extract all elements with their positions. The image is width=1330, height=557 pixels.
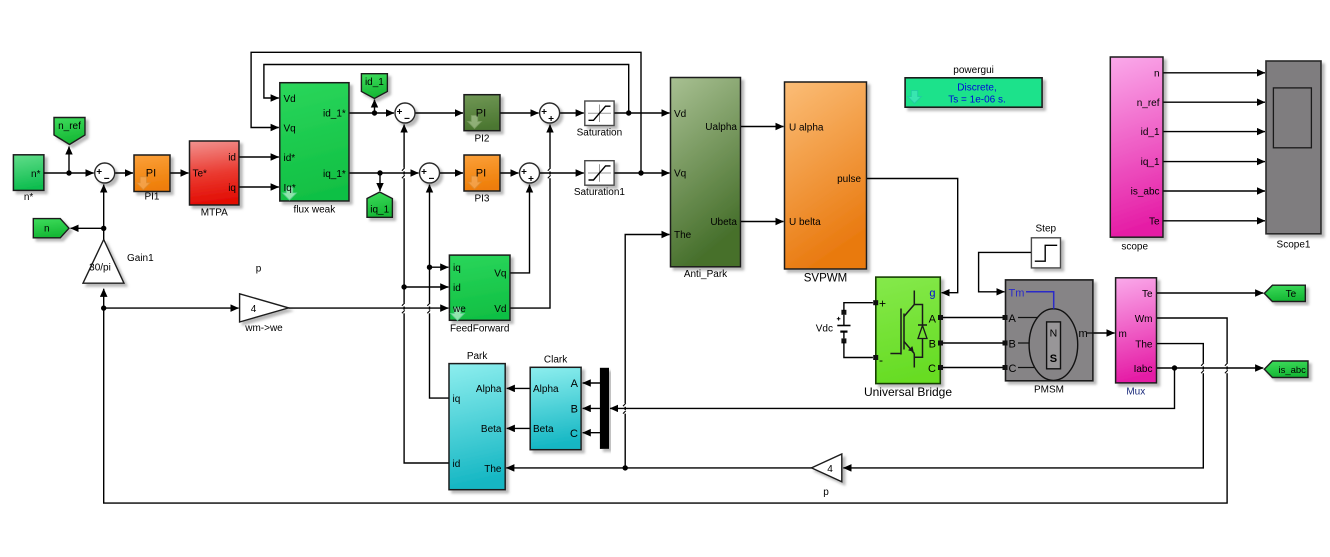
svg-text:SVPWM: SVPWM: [804, 273, 847, 285]
sum junction Sum2: [395, 103, 415, 123]
svg-text:Vq: Vq: [284, 123, 296, 134]
wire Mux Te to tag: [1157, 292, 1263, 294]
wire demux to Clark C: [583, 432, 600, 434]
svg-text:id: id: [453, 283, 461, 294]
svg-text:Discrete,: Discrete,: [957, 83, 996, 94]
svg-text:A: A: [571, 378, 579, 390]
wire PI3 to Sum5: [501, 172, 519, 174]
svg-text:S: S: [1050, 353, 1057, 365]
svg-text:Vd: Vd: [674, 109, 686, 120]
svg-text:B: B: [1009, 338, 1016, 350]
machine block PMSM: [1006, 280, 1094, 395]
wire Vdc minus to bridge: [844, 342, 873, 358]
wire gain wm-we to FeedForward we: [289, 307, 449, 309]
wire Iabc to demux: [610, 368, 1175, 408]
crossing hop Wm vertical x Iabc out wire: [1225, 363, 1229, 373]
subsystem FeedForward: [449, 255, 510, 334]
svg-text:B: B: [571, 403, 578, 415]
svg-text:powergui: powergui: [953, 65, 994, 76]
svg-text:PI1: PI1: [144, 192, 159, 203]
svg-text:Vq: Vq: [674, 169, 686, 180]
junction The branch: [623, 465, 628, 470]
svg-text:The: The: [674, 230, 692, 241]
svg-text:id: id: [453, 459, 461, 470]
wire Sum1 to PI1: [115, 172, 133, 174]
svg-text:Tm: Tm: [1009, 287, 1025, 299]
wire id branch to FeedForward: [404, 286, 448, 288]
wire PMSM m to Mux: [1094, 332, 1115, 334]
svg-text:Scope1: Scope1: [1277, 240, 1311, 251]
svg-text:30/pi: 30/pi: [89, 263, 111, 274]
wire branch to n tag: [71, 227, 104, 229]
svg-text:is_abc: is_abc: [1278, 365, 1306, 376]
svg-text:id_1: id_1: [1141, 127, 1160, 138]
svg-text:Te: Te: [1149, 216, 1160, 227]
subsystem Clark: [530, 355, 581, 450]
svg-text:PMSM: PMSM: [1034, 384, 1064, 395]
svg-text:U alpha: U alpha: [789, 122, 824, 133]
wire Mux Wm feedback: [104, 289, 1227, 503]
svg-text:we: we: [452, 304, 466, 315]
svg-text:PI2: PI2: [474, 134, 489, 145]
wire Sum5 to Saturation1: [540, 172, 584, 174]
PI block PI2: [464, 95, 500, 145]
svg-text:Park: Park: [467, 351, 489, 362]
wire PI1 to MTPA Te*: [171, 172, 189, 174]
wire Saturation1 to Anti_Park Vq: [615, 172, 670, 174]
junction Vd feedback: [626, 110, 631, 115]
svg-text:Te: Te: [1142, 289, 1153, 300]
wire flux weak id_1* to Sum2: [350, 112, 395, 114]
goto tag iq_1: [367, 192, 392, 217]
svg-text:Beta: Beta: [533, 424, 554, 435]
wire demux to Clark A: [583, 382, 600, 384]
junction id_1 branch: [372, 110, 377, 115]
wire MTPA iq to flux weak Iq*: [240, 186, 279, 188]
pad bridge minus: [873, 355, 878, 360]
junction iq to FeedForward: [427, 265, 432, 270]
wire iq branch to FeedForward: [430, 266, 449, 268]
svg-text:MTPA: MTPA: [201, 208, 228, 219]
power block Universal Bridge: [864, 277, 952, 399]
svg-text:is_abc: is_abc: [1131, 187, 1160, 198]
goto tag is_abc: [1264, 361, 1308, 378]
svg-text:U belta: U belta: [789, 217, 821, 228]
goto tag n_ref: [54, 118, 85, 145]
source block n*: [13, 155, 44, 203]
wire FeedForward Vd to Sum4: [511, 125, 551, 309]
svg-text:Ubeta: Ubeta: [710, 217, 737, 228]
sum junction Sum4: [540, 103, 560, 123]
svg-text:iq_1: iq_1: [370, 204, 389, 215]
wire scope Te to Scope1: [1164, 220, 1266, 222]
wire Mux The feedback: [843, 344, 1203, 468]
wire bridge B to PMSM B: [941, 342, 1006, 344]
svg-text:n_ref: n_ref: [1137, 98, 1160, 109]
svg-text:Mux: Mux: [1126, 386, 1145, 397]
wire scope is_abc to Scope1: [1164, 190, 1266, 192]
wire Saturation to Anti_Park Vd: [615, 112, 670, 114]
wire Sum3 to PI3: [440, 172, 463, 174]
crossing hop The vertical x Iabc out wire: [1201, 363, 1205, 373]
subsystem Park: [449, 351, 505, 490]
svg-text:Universal Bridge: Universal Bridge: [864, 385, 952, 399]
wire Clark Beta to Park: [507, 427, 530, 429]
subsystem Anti_Park: [671, 78, 741, 281]
wire MTPA id to flux weak id*: [240, 156, 279, 158]
sum junction Sum1: [95, 163, 115, 183]
wire bridge C to PMSM C: [941, 367, 1006, 369]
svg-text:PI: PI: [146, 168, 156, 180]
svg-text:4: 4: [827, 464, 833, 475]
gain p: [812, 454, 842, 498]
wire Mux Iabc to is_abc tag: [1157, 367, 1263, 369]
junction iq_1 branch: [377, 170, 382, 175]
subsystem MTPA: [190, 141, 240, 219]
goto tag id_1: [361, 74, 387, 99]
wire bridge A to PMSM A: [941, 317, 1006, 319]
junction id to FeedForward: [401, 284, 406, 289]
svg-text:A: A: [929, 313, 937, 325]
subsystem scope: [1110, 57, 1163, 253]
svg-text:Ts = 1e-06 s.: Ts = 1e-06 s.: [948, 95, 1006, 106]
wire Anti_Park Ubeta to SVPWM: [741, 221, 784, 223]
wire scope n to Scope1: [1164, 72, 1266, 74]
saturation block Saturation1: [574, 161, 626, 198]
wire Vd feedback loop: [264, 65, 629, 114]
svg-text:iq: iq: [453, 263, 461, 274]
pad bridge B: [938, 341, 1008, 346]
dc source Vdc: [816, 310, 851, 344]
wire scope id_1 to Scope1: [1164, 131, 1266, 133]
wire The to Anti_Park: [625, 235, 669, 468]
gain Gain1 30/pi: [83, 240, 154, 284]
svg-text:Alpha: Alpha: [533, 384, 559, 395]
wire n* to Sum1: [44, 172, 94, 174]
svg-text:p: p: [256, 264, 262, 275]
wire Park iq feedback: [430, 185, 449, 399]
svg-text:B: B: [929, 338, 936, 350]
svg-text:scope: scope: [1121, 242, 1148, 253]
svg-text:Te*: Te*: [193, 169, 208, 180]
crossing hop id vertical x we wire: [402, 303, 406, 313]
svg-text:Alpha: Alpha: [476, 384, 502, 395]
wire scope n_ref to Scope1: [1164, 101, 1266, 103]
svg-text:Anti_Park: Anti_Park: [684, 269, 728, 280]
subsystem flux weak: [280, 83, 349, 216]
subsystem SVPWM: [785, 82, 867, 285]
svg-text:Wm: Wm: [1135, 314, 1153, 325]
svg-text:pulse: pulse: [837, 174, 861, 185]
junction n branch: [101, 226, 106, 231]
svg-text:id: id: [228, 153, 236, 164]
wire branch to gain wm-we: [104, 307, 239, 309]
svg-text:A: A: [1009, 313, 1017, 325]
svg-text:n*: n*: [31, 169, 41, 180]
wire branch to id_1 tag: [374, 100, 376, 114]
wire branch to n_ref tag: [68, 147, 70, 174]
wire gain p to Park The: [506, 467, 811, 469]
svg-text:+: +: [879, 297, 886, 311]
wire SVPWM pulse to bridge g: [867, 179, 958, 293]
pad bridge A: [938, 315, 1008, 320]
PI block PI1: [134, 155, 170, 203]
svg-text:Step: Step: [1036, 224, 1057, 235]
svg-text:n: n: [44, 224, 50, 235]
svg-text:Iq*: Iq*: [284, 183, 296, 194]
svg-text:Vdc: Vdc: [816, 324, 833, 335]
wire FeedForward Vq to Sum5: [511, 185, 530, 273]
svg-text:id_1*: id_1*: [323, 109, 346, 120]
pad bridge C: [938, 365, 1008, 370]
sum junction Sum3: [420, 163, 440, 183]
PI block PI3: [464, 155, 500, 205]
crossing hop Vd vertical x row2 wire: [548, 168, 552, 178]
svg-text:n*: n*: [24, 192, 34, 203]
svg-text:The: The: [1135, 340, 1153, 351]
svg-text:Vd: Vd: [284, 94, 296, 105]
svg-text:id*: id*: [284, 153, 296, 164]
wire Vdc plus to bridge: [844, 303, 873, 311]
junction Vq feedback: [638, 170, 643, 175]
crossing hop The vertical x Iabc wire: [623, 403, 627, 413]
svg-text:4: 4: [251, 304, 257, 315]
saturation block Saturation: [577, 101, 623, 138]
svg-text:Ualpha: Ualpha: [705, 122, 737, 133]
svg-text:id_1: id_1: [365, 77, 384, 88]
sum junction Sum5: [520, 163, 540, 183]
wire Sum2 to PI2: [416, 112, 464, 114]
svg-text:flux weak: flux weak: [294, 205, 337, 216]
svg-text:Vd: Vd: [494, 304, 506, 315]
wire branch to iq_1 tag: [379, 173, 381, 191]
svg-text:FeedForward: FeedForward: [450, 323, 509, 334]
wire PI2 to Sum4: [501, 112, 539, 114]
goto tag n: [33, 219, 69, 238]
wire scope iq_1 to Scope1: [1164, 161, 1266, 163]
wire flux weak iq_1* to Sum3: [350, 172, 419, 174]
svg-text:g: g: [929, 288, 935, 300]
svg-text:PI3: PI3: [474, 194, 489, 205]
crossing hop id vertical x iq_1 wire: [402, 168, 406, 178]
svg-text:iq: iq: [453, 394, 461, 405]
svg-text:Saturation1: Saturation1: [574, 187, 626, 198]
svg-text:C: C: [1009, 363, 1017, 375]
wire demux to Clark B: [583, 407, 600, 409]
svg-text:Beta: Beta: [481, 424, 502, 435]
svg-text:N: N: [1050, 328, 1058, 340]
svg-text:Te: Te: [1286, 289, 1297, 300]
goto tag Te: [1264, 285, 1305, 301]
wire Clark Alpha to Park: [507, 387, 530, 389]
step source Step: [1031, 224, 1060, 268]
wire Park id feedback: [404, 125, 448, 464]
demux bar: [600, 368, 608, 448]
svg-text:Vq: Vq: [494, 269, 506, 280]
svg-text:C: C: [570, 428, 578, 440]
svg-text:PI: PI: [476, 168, 486, 180]
svg-text:PI: PI: [476, 108, 486, 120]
wire Step to PMSM Tm: [979, 252, 1031, 291]
powergui block: [905, 65, 1042, 107]
svg-text:iq_1: iq_1: [1141, 157, 1160, 168]
gain wm->we: [240, 264, 289, 335]
svg-text:iq: iq: [228, 183, 236, 194]
svg-text:Iabc: Iabc: [1134, 364, 1153, 375]
junction Iabc branch: [1172, 365, 1177, 370]
svg-text:n: n: [1154, 68, 1160, 79]
svg-text:iq_1*: iq_1*: [323, 169, 346, 180]
svg-text:The: The: [484, 464, 502, 475]
svg-text:p: p: [823, 487, 829, 498]
svg-text:-: -: [879, 353, 883, 367]
scope block Scope1: [1266, 61, 1321, 251]
svg-text:C: C: [928, 363, 936, 375]
subsystem Mux: [1116, 278, 1157, 398]
svg-text:wm->we: wm->we: [244, 323, 283, 334]
wire Gain1 to Sum1: [103, 185, 105, 240]
svg-text:Gain1: Gain1: [127, 253, 154, 264]
svg-text:n_ref: n_ref: [58, 121, 81, 132]
junction wm branch: [101, 305, 106, 310]
wire Vq feedback loop: [251, 52, 641, 173]
svg-text:Saturation: Saturation: [577, 127, 623, 138]
wire Sum4 to Saturation: [560, 112, 584, 114]
svg-text:Clark: Clark: [544, 355, 568, 366]
crossing hop iq vertical x we wire: [427, 303, 431, 313]
svg-text:m: m: [1079, 328, 1088, 340]
pad bridge plus: [873, 300, 878, 305]
junction n_ref branch: [66, 170, 71, 175]
svg-text:m: m: [1119, 329, 1127, 340]
wire Anti_Park Ualpha to SVPWM: [741, 126, 784, 128]
